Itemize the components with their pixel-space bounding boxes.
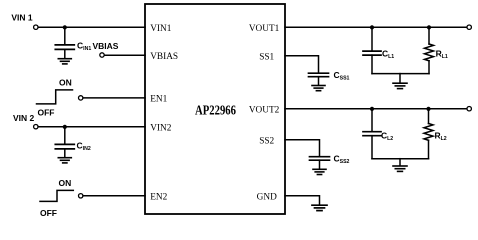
terminal VOUT1 — [467, 25, 471, 29]
svg-text:EN2: EN2 — [150, 192, 167, 202]
svg-text:GND: GND — [257, 192, 277, 202]
wire SS2 — [285, 140, 320, 157]
wire CL1 top — [371, 27, 373, 50]
terminal VIN2 input — [34, 125, 38, 129]
op-amp U1 AP22966 IC body — [145, 4, 285, 214]
wire VIN2 input to pin — [38, 126, 145, 128]
wire VBIAS to pin — [104, 54, 145, 56]
svg-text:VIN 1: VIN 1 — [11, 13, 33, 23]
svg-text:CL1: CL1 — [382, 49, 394, 61]
wire EN1 to pin — [83, 97, 145, 99]
capacitor CIN1 — [55, 45, 74, 50]
terminal VOUT2 — [467, 107, 471, 111]
svg-text:ON: ON — [59, 78, 72, 88]
junction VOUT2 / CL2 — [370, 107, 374, 111]
capacitor CSS1 — [309, 73, 329, 77]
junction VIN1 / CIN1 — [63, 25, 67, 29]
svg-text:CSS2: CSS2 — [334, 153, 350, 165]
wire ground stem rail 2 — [399, 159, 401, 166]
wire CIN2 bottom — [64, 149, 66, 157]
ground CIN2 — [58, 158, 71, 163]
wire rail CL2-RL2 — [372, 158, 429, 160]
junction VOUT1 / CL1 — [370, 25, 374, 29]
svg-text:AP22966: AP22966 — [195, 103, 236, 118]
svg-text:VIN 2: VIN 2 — [13, 113, 35, 123]
capacitor CL1 — [363, 51, 381, 55]
junction VOUT1 / RL1 — [427, 25, 431, 29]
junction VIN2 / CIN2 — [63, 125, 67, 129]
wire CIN2 top — [64, 127, 66, 144]
svg-text:VIN1: VIN1 — [150, 24, 172, 34]
terminal VIN1 input — [34, 25, 38, 29]
svg-text:VOUT1: VOUT1 — [249, 24, 280, 34]
ground GND pin — [312, 205, 327, 210]
wire ground stem rail 1 — [399, 74, 401, 83]
svg-text:VIN2: VIN2 — [150, 123, 172, 133]
terminal EN1 — [79, 96, 83, 100]
capacitor CL2 — [363, 132, 381, 136]
wire CIN1 top — [64, 27, 66, 44]
wire CL1 bottom — [371, 55, 373, 74]
ground CSS2 — [313, 169, 326, 174]
svg-text:OFF: OFF — [38, 108, 55, 118]
ground CIN1 — [58, 59, 71, 64]
capacitor CIN2 — [55, 144, 74, 149]
wire VOUT1 output — [285, 26, 467, 28]
wire RL1 top — [428, 27, 430, 44]
svg-text:OFF: OFF — [40, 208, 57, 218]
terminal EN2 — [79, 194, 83, 198]
wire CSS2 bottom — [319, 160, 321, 169]
wire RL1 bottom — [428, 61, 430, 74]
ground CSS1 — [312, 86, 325, 91]
svg-text:CIN2: CIN2 — [77, 141, 91, 153]
ground rail 1 — [393, 83, 407, 88]
ground rail 2 — [393, 166, 407, 171]
wire CSS1 bottom — [318, 77, 320, 85]
wire RL2 bottom — [428, 140, 430, 158]
svg-text:CL2: CL2 — [381, 130, 393, 142]
wire EN2 to pin — [83, 195, 145, 197]
resistor RL1 — [425, 44, 434, 61]
signal step EN2 — [40, 190, 73, 201]
svg-text:EN1: EN1 — [150, 95, 167, 105]
wire GND pin — [285, 196, 320, 205]
svg-text:CIN1: CIN1 — [77, 41, 91, 53]
wire CL2 top — [371, 109, 373, 132]
svg-text:VBIAS: VBIAS — [93, 41, 119, 51]
svg-text:VBIAS: VBIAS — [150, 52, 178, 62]
wire VOUT2 output — [285, 108, 467, 110]
svg-text:SS1: SS1 — [259, 52, 274, 62]
wire VIN1 input to pin — [38, 26, 145, 28]
wire rail CL1-RL1 — [372, 73, 429, 75]
wire SS1 — [285, 56, 319, 73]
terminal VBIAS — [100, 53, 104, 57]
signal step EN1 — [37, 90, 73, 104]
capacitor CSS2 — [310, 157, 330, 161]
wire RL2 top — [428, 109, 430, 124]
svg-text:VOUT2: VOUT2 — [249, 105, 280, 115]
svg-text:RL2: RL2 — [435, 130, 447, 142]
svg-text:CSS1: CSS1 — [334, 70, 350, 82]
wire CL2 bottom — [371, 136, 373, 159]
resistor RL2 — [424, 124, 433, 141]
junction VOUT2 / RL2 — [426, 107, 430, 111]
svg-text:SS2: SS2 — [259, 136, 274, 146]
svg-text:RL1: RL1 — [436, 48, 448, 60]
svg-text:ON: ON — [59, 178, 72, 188]
wire CIN1 bottom — [64, 49, 66, 58]
